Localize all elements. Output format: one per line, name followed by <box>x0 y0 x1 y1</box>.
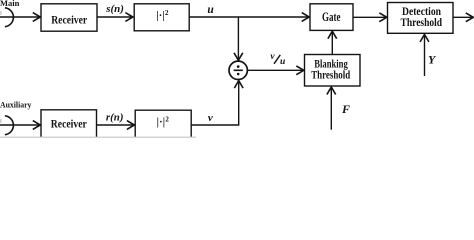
svg-text:F: F <box>341 102 350 116</box>
svg-text:Receiver: Receiver <box>51 12 88 26</box>
divider (÷) <box>229 61 247 79</box>
faint page artifact line <box>0 137 196 138</box>
label u <box>207 4 214 16</box>
svg-text:Y: Y <box>428 53 437 67</box>
wire main feed <box>0 16 40 18</box>
block Gate <box>310 4 353 31</box>
wire aux feed <box>0 124 40 126</box>
svg-text:Main: Main <box>0 0 20 8</box>
svg-text:Auxiliary: Auxiliary <box>0 101 31 110</box>
page artifact left edge top <box>0 11 2 15</box>
block Detection Threshold <box>388 3 454 34</box>
block squarer |.|^2 (aux) <box>135 110 191 137</box>
wire gate to detection <box>353 16 387 18</box>
antenna Main <box>5 8 14 27</box>
label Auxiliary <box>0 101 31 110</box>
block Blanking Threshold <box>305 55 361 87</box>
label Main <box>0 0 20 8</box>
wire r(n) <box>97 124 135 126</box>
svg-text:v: v <box>270 52 275 62</box>
block squarer |.|^2 (main) <box>134 4 189 31</box>
block Receiver (aux) <box>41 110 97 137</box>
wire u <box>189 16 309 18</box>
wire v/u to blanking <box>248 69 304 71</box>
svg-text:r(n): r(n) <box>106 112 124 123</box>
svg-text:Threshold: Threshold <box>401 17 443 29</box>
wire v <box>191 81 239 125</box>
antenna Auxiliary <box>5 116 14 135</box>
svg-text:Gate: Gate <box>322 10 341 24</box>
label v/u <box>270 52 285 67</box>
page artifact left edge bottom <box>0 119 2 123</box>
label Y <box>428 53 437 67</box>
wire u drop to divider <box>237 17 239 60</box>
label s(n) <box>105 4 124 15</box>
wire F input <box>330 87 332 130</box>
svg-text:Receiver: Receiver <box>51 117 88 131</box>
wire blanking to gate <box>331 31 333 54</box>
svg-text:s(n): s(n) <box>105 4 124 15</box>
svg-text:u: u <box>207 4 214 16</box>
block Receiver (main) <box>41 4 97 31</box>
wire output <box>453 16 473 18</box>
wire Y input <box>424 34 426 76</box>
label v <box>208 112 213 124</box>
svg-text:u: u <box>280 57 285 67</box>
svg-text:Threshold: Threshold <box>311 68 350 82</box>
label F <box>341 102 350 116</box>
label r(n) <box>106 112 124 123</box>
svg-text:v: v <box>208 112 213 124</box>
wire s(n) <box>97 16 133 18</box>
